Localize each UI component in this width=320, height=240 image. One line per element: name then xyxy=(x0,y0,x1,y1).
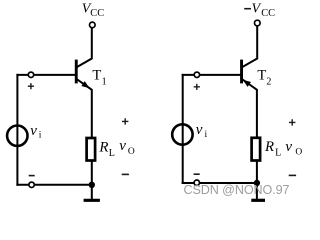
svg-text:CC: CC xyxy=(90,8,104,19)
svg-text:CC: CC xyxy=(261,8,275,19)
svg-text:R: R xyxy=(98,139,108,155)
svg-text:i: i xyxy=(205,130,208,140)
svg-text:O: O xyxy=(295,147,302,157)
svg-text:v: v xyxy=(196,122,203,138)
svg-text:2: 2 xyxy=(266,76,271,87)
svg-text:O: O xyxy=(128,147,135,157)
svg-text:CSDN @NONO.97: CSDN @NONO.97 xyxy=(184,183,290,197)
svg-text:V: V xyxy=(252,2,262,17)
svg-text:i: i xyxy=(39,131,42,141)
svg-text:L: L xyxy=(275,147,281,158)
svg-text:v: v xyxy=(30,123,37,139)
svg-text:v: v xyxy=(119,138,126,154)
svg-text:L: L xyxy=(109,148,115,159)
svg-text:T: T xyxy=(257,67,266,83)
svg-text:R: R xyxy=(264,139,274,155)
svg-text:1: 1 xyxy=(102,76,107,87)
svg-text:v: v xyxy=(285,139,292,155)
svg-text:T: T xyxy=(92,67,101,83)
